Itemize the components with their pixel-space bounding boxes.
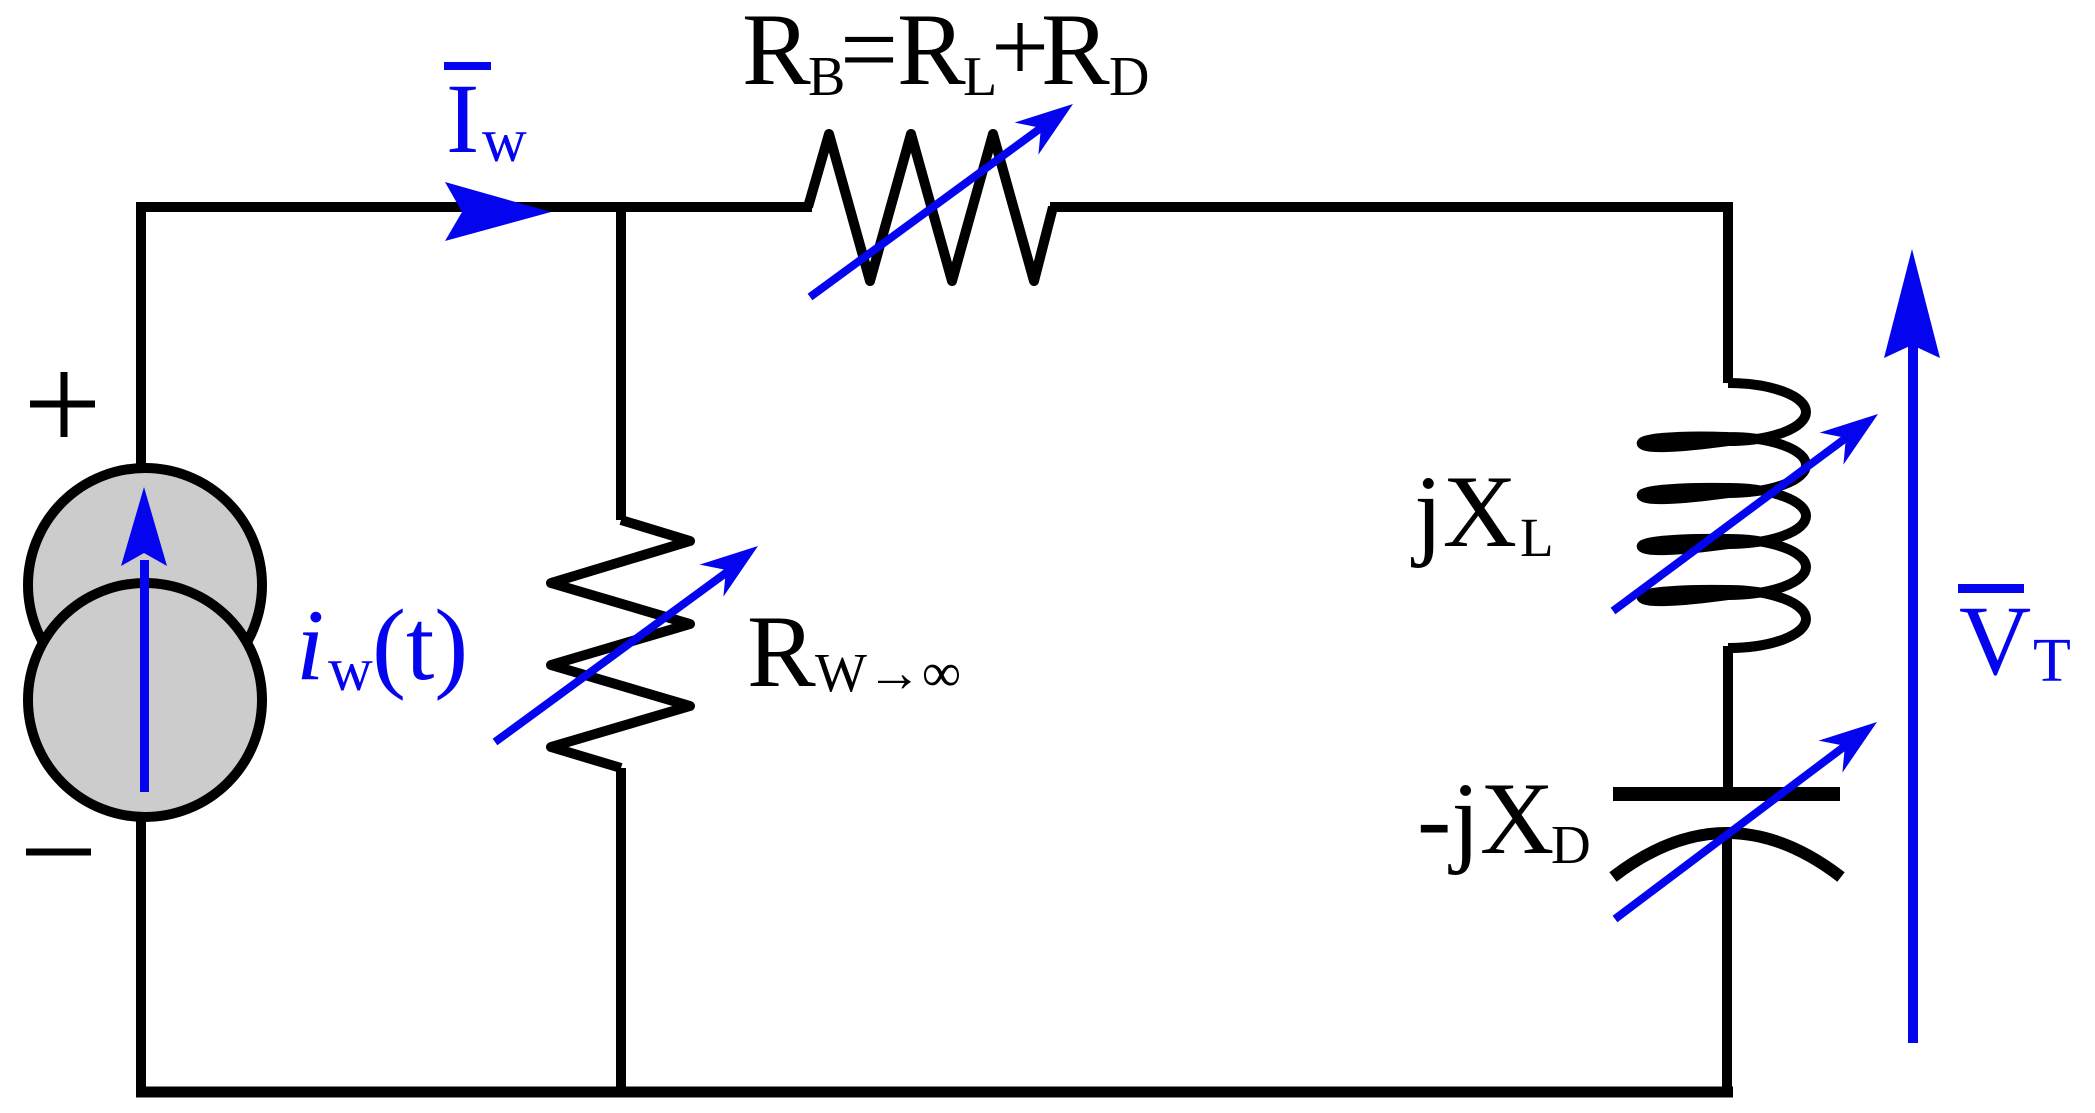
capacitor -jXD (variable) bbox=[1613, 787, 1841, 877]
minus terminal bbox=[26, 849, 91, 856]
label VT with overbar bbox=[1958, 584, 2071, 696]
svg-text:jX: jX bbox=[1411, 455, 1517, 569]
Iw current arrow on top wire bbox=[445, 182, 551, 241]
plus terminal bbox=[30, 372, 95, 437]
svg-text:w: w bbox=[328, 636, 373, 704]
svg-text:L: L bbox=[1520, 507, 1554, 568]
svg-text:-jX: -jX bbox=[1417, 762, 1554, 876]
source arrow iw bbox=[121, 487, 167, 792]
svg-text:=: = bbox=[840, 0, 898, 107]
wire coil-to-capacitor bbox=[1723, 646, 1733, 787]
svg-text:R: R bbox=[1041, 0, 1110, 107]
wire capacitor-to-bottom bbox=[1722, 838, 1732, 1092]
resistor RW (variable, middle branch) bbox=[551, 520, 690, 768]
svg-text:D: D bbox=[1551, 814, 1591, 875]
RB variable arrow bbox=[810, 104, 1073, 297]
current source Iw (two overlapping circles) bbox=[28, 468, 262, 817]
svg-text:V: V bbox=[1959, 585, 2031, 696]
label jXL bbox=[1411, 455, 1554, 569]
label -jXD bbox=[1417, 762, 1591, 876]
jXL variable arrow bbox=[1613, 414, 1878, 611]
wire left vertical bbox=[136, 205, 146, 1092]
svg-text:I: I bbox=[446, 63, 479, 174]
svg-text:D: D bbox=[1109, 46, 1149, 108]
label iw(t) bbox=[296, 589, 468, 704]
svg-text:i: i bbox=[296, 589, 324, 702]
XD variable arrow bbox=[1615, 722, 1877, 919]
wire middle branch vertical bbox=[616, 207, 626, 1092]
wire bottom horizontal bbox=[136, 1087, 1733, 1098]
inductor jXL (variable) bbox=[1642, 383, 1806, 648]
svg-text:W→∞: W→∞ bbox=[815, 642, 961, 703]
wire top-right segment bbox=[1050, 202, 1733, 383]
label Iw with overbar bbox=[444, 62, 527, 175]
svg-text:T: T bbox=[2033, 627, 2071, 695]
svg-text:w: w bbox=[482, 107, 527, 175]
VT phasor arrow bbox=[1884, 249, 1940, 1043]
label RW->inf bbox=[747, 595, 961, 709]
resistor RB (variable, top) bbox=[808, 134, 1053, 281]
label RB=RL+RD bbox=[742, 0, 1149, 108]
svg-text:R: R bbox=[897, 0, 966, 107]
RW variable arrow bbox=[495, 546, 758, 742]
svg-text:(t): (t) bbox=[372, 589, 468, 702]
wire top-left horizontal segment bbox=[141, 207, 812, 211]
svg-text:R: R bbox=[747, 595, 816, 709]
svg-text:R: R bbox=[742, 0, 811, 107]
